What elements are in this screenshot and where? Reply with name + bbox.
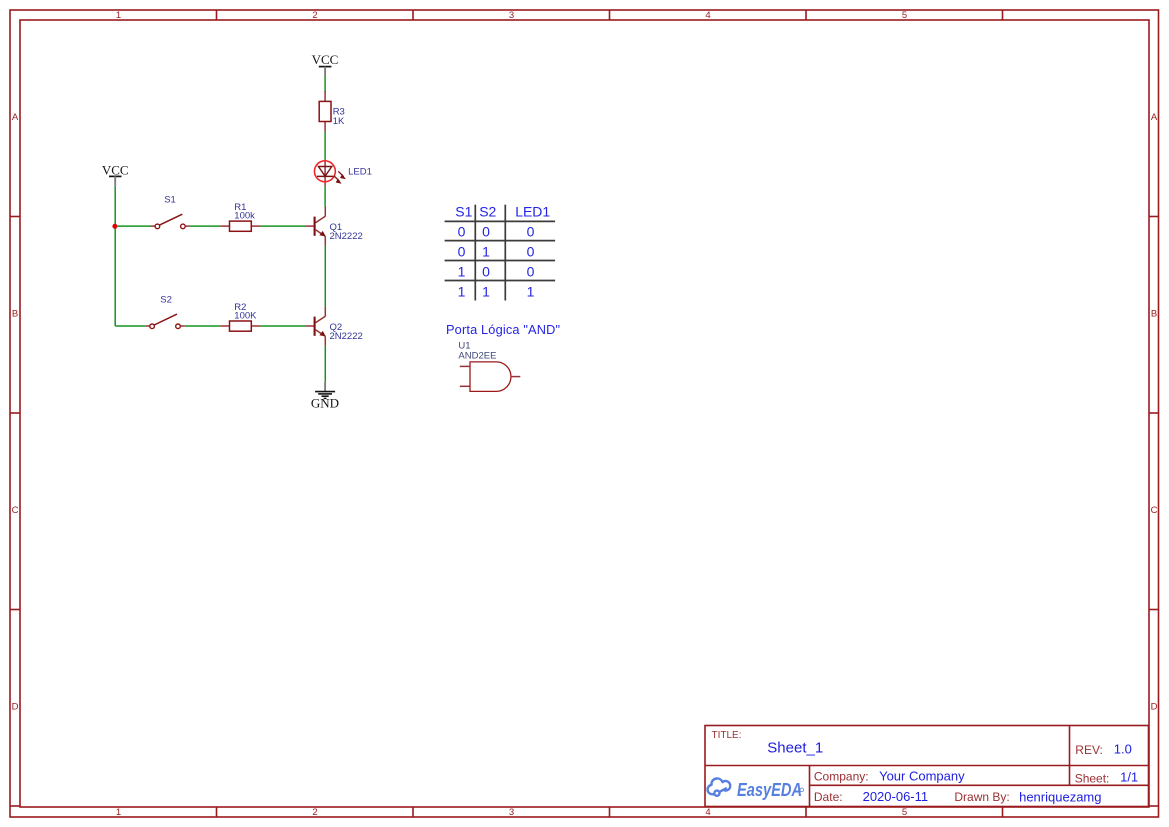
svg-text:5: 5 bbox=[902, 10, 907, 21]
resistor R3 bbox=[319, 91, 345, 132]
svg-text:S1: S1 bbox=[164, 195, 176, 206]
wire S1 to R1 bbox=[190, 225, 220, 227]
svg-text:S2: S2 bbox=[479, 204, 496, 220]
svg-text:2N2222: 2N2222 bbox=[330, 231, 363, 242]
svg-text:3: 3 bbox=[509, 807, 514, 818]
svg-text:0: 0 bbox=[527, 223, 535, 239]
wire rail to S2 bbox=[115, 325, 146, 327]
svg-text:1: 1 bbox=[527, 283, 535, 299]
svg-text:100K: 100K bbox=[234, 310, 257, 321]
svg-text:D: D bbox=[1151, 702, 1158, 713]
svg-text:henriquezamg: henriquezamg bbox=[1019, 789, 1101, 804]
node junction at S1 branch bbox=[112, 224, 117, 229]
svg-text:C: C bbox=[12, 505, 19, 516]
transistor Q2 2N2222 bbox=[305, 307, 363, 346]
svg-text:LED1: LED1 bbox=[515, 204, 550, 220]
svg-text:1: 1 bbox=[458, 283, 466, 299]
truth table lines bbox=[445, 205, 555, 301]
svg-text:4: 4 bbox=[705, 10, 710, 21]
AND gate U1 bbox=[460, 362, 521, 392]
title block outline bbox=[705, 726, 1149, 807]
svg-text:C: C bbox=[1151, 505, 1158, 516]
wire Q1 emitter to Q2 collector bbox=[324, 246, 326, 307]
svg-text:3: 3 bbox=[509, 10, 514, 21]
svg-text:B: B bbox=[12, 309, 18, 320]
frame row ticks left bbox=[10, 217, 20, 807]
svg-text:Drawn By:: Drawn By: bbox=[954, 790, 1009, 804]
svg-text:Company:: Company: bbox=[814, 770, 869, 784]
svg-text:0: 0 bbox=[527, 263, 535, 279]
switch S2 bbox=[146, 295, 185, 329]
svg-text:2020-06-11: 2020-06-11 bbox=[863, 789, 929, 804]
svg-text:Sheet_1: Sheet_1 bbox=[767, 740, 823, 757]
svg-text:Sheet:: Sheet: bbox=[1075, 772, 1110, 786]
svg-text:S1: S1 bbox=[455, 204, 472, 220]
svg-text:A: A bbox=[12, 112, 19, 123]
wire VCC to R3 bbox=[324, 76, 326, 92]
svg-text:Date:: Date: bbox=[814, 790, 843, 804]
svg-text:0: 0 bbox=[482, 223, 490, 239]
svg-text:LED1: LED1 bbox=[348, 166, 372, 177]
wire S2 to R2 bbox=[185, 325, 220, 327]
svg-text:0: 0 bbox=[458, 223, 466, 239]
wire Q2 emitter to GND bbox=[324, 346, 326, 382]
EasyEDA logo cloud bbox=[708, 778, 731, 795]
wire junction to S1 bbox=[115, 225, 150, 227]
svg-text:100k: 100k bbox=[234, 210, 255, 221]
svg-text:S2: S2 bbox=[160, 295, 172, 306]
svg-text:5: 5 bbox=[902, 807, 907, 818]
svg-text:1: 1 bbox=[116, 807, 121, 818]
svg-text:Porta Lógica "AND": Porta Lógica "AND" bbox=[446, 322, 560, 337]
frame row letters left bbox=[12, 112, 19, 713]
truth table text bbox=[455, 204, 550, 300]
frame row ticks right bbox=[1149, 217, 1159, 807]
ground GND flag bbox=[311, 382, 339, 411]
svg-text:1K: 1K bbox=[333, 116, 345, 127]
svg-text:1: 1 bbox=[458, 263, 466, 279]
wire R1 to Q1 base bbox=[261, 225, 306, 227]
resistor R1 bbox=[220, 202, 260, 231]
svg-text:0: 0 bbox=[482, 263, 490, 279]
wire R2 to Q2 base bbox=[261, 325, 306, 327]
frame column ticks bottom bbox=[217, 807, 1003, 817]
svg-text:VCC: VCC bbox=[312, 52, 339, 67]
net flag VCC (top, node of R3) bbox=[312, 52, 339, 76]
svg-text:VCC: VCC bbox=[102, 163, 129, 178]
frame column numbers top bbox=[116, 10, 907, 21]
frame column numbers bottom bbox=[116, 807, 907, 818]
wire LED1 to Q1 collector bbox=[324, 186, 326, 207]
frame row letters right bbox=[1151, 112, 1158, 713]
svg-text:1: 1 bbox=[116, 10, 121, 21]
svg-text:2: 2 bbox=[312, 10, 317, 21]
svg-text:1/1: 1/1 bbox=[1120, 770, 1138, 785]
svg-text:1: 1 bbox=[482, 243, 490, 259]
svg-text:B: B bbox=[1151, 309, 1157, 320]
svg-text:4: 4 bbox=[705, 807, 710, 818]
svg-text:D: D bbox=[12, 702, 19, 713]
svg-text:TITLE:: TITLE: bbox=[712, 730, 742, 741]
svg-text:Your Company: Your Company bbox=[879, 769, 965, 784]
svg-text:2N2222: 2N2222 bbox=[330, 331, 363, 342]
LED LED1 bbox=[314, 160, 371, 186]
svg-text:EasyEDA: EasyEDA bbox=[737, 780, 802, 800]
wire R3 to LED1 bbox=[324, 132, 326, 160]
wire left VCC rail vertical bbox=[114, 186, 116, 326]
net flag VCC (left rail) bbox=[102, 163, 129, 186]
svg-text:GND: GND bbox=[311, 396, 339, 411]
svg-text:0: 0 bbox=[527, 243, 535, 259]
frame column ticks top bbox=[217, 10, 1003, 20]
svg-text:1.0: 1.0 bbox=[1114, 742, 1132, 757]
svg-text:2: 2 bbox=[312, 807, 317, 818]
svg-text:REV:: REV: bbox=[1075, 743, 1103, 757]
svg-text:AND2EE: AND2EE bbox=[458, 350, 496, 361]
svg-text:1: 1 bbox=[482, 283, 490, 299]
transistor Q1 2N2222 bbox=[305, 207, 363, 246]
svg-text:A: A bbox=[1151, 112, 1158, 123]
svg-text:0: 0 bbox=[458, 243, 466, 259]
resistor R2 bbox=[220, 302, 260, 331]
switch S1 bbox=[151, 195, 190, 229]
